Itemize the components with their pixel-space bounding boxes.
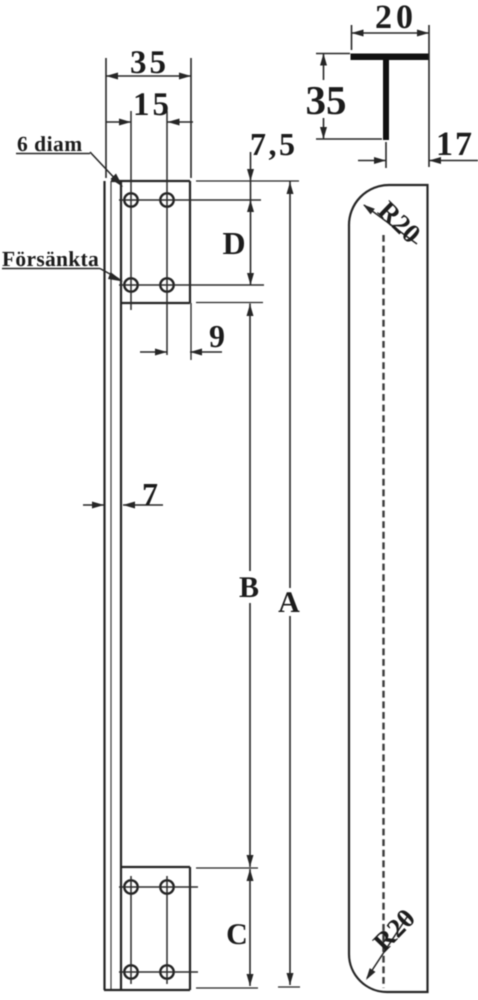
label 6 diam underline [16,153,90,155]
svg-text:17: 17 [436,126,474,163]
dimension D [247,200,254,285]
svg-text:A: A [278,586,300,619]
dimension 35 right [316,54,382,140]
hole H7 [124,965,137,978]
dimension 15 [106,119,193,126]
R20 top arrowhead [363,205,375,215]
svg-text:6 diam: 6 diam [17,132,83,156]
svg-text:B: B [239,571,259,604]
centerline col1 bottom [130,876,132,984]
centerline row2 [119,284,264,286]
centerline col2 bottom [166,876,168,984]
hole H2 [160,193,173,206]
svg-text:35: 35 [306,77,347,123]
bottom extension line C [196,987,258,989]
svg-text:15: 15 [133,87,172,123]
svg-text:7: 7 [142,476,158,512]
front view: step edge extension line [196,302,263,304]
svg-text:35: 35 [130,45,169,81]
hole H5 [124,880,137,893]
leader 6 diam [90,152,120,184]
dimension 20 [352,25,430,167]
top edge extension line [196,180,299,182]
hole H4 [160,278,173,291]
label Forsankta underline [2,268,100,270]
dimension 35 top [106,58,191,178]
dimension 7 [83,502,163,509]
front view: flange strip right edge / plate left edge [120,181,122,990]
R20 bottom arrowhead [366,968,376,980]
front view: top block right edge extension down [190,303,192,360]
svg-text:C: C [226,918,248,951]
R20 bottom leader [367,914,409,978]
svg-text:D: D [222,225,245,261]
front view: top edge of plate [111,180,190,182]
dimension 17 [358,142,478,168]
leader Forsankta arrowhead [108,272,123,282]
front view: flange strip middle line [110,181,112,990]
front view: flange strip left edge [103,181,105,990]
dimension C [247,869,254,986]
holes top block [124,193,173,978]
side view outline [349,185,428,992]
T-view flange bar [351,54,429,61]
centerline row1 [119,199,261,201]
front view: bottom edge [104,989,190,991]
centerline col2 top [166,111,168,355]
centerline row4 [119,971,198,973]
dimension B [247,304,254,868]
hole H3 [124,278,137,291]
svg-text:7,5: 7,5 [250,126,298,162]
svg-text:9: 9 [209,318,225,354]
bottom extension line A [278,986,300,988]
dimension 7,5 [247,152,254,200]
hole H6 [160,880,173,893]
front view: bottom block step edge [121,866,190,868]
T-view web bar [383,60,389,140]
front view: top block right edge [189,181,191,303]
side view dashed centerline [382,235,384,988]
front view: bottom step extension line [196,867,258,869]
R20 top leader [364,205,417,244]
centerline col1 top [130,111,132,310]
svg-text:20: 20 [375,0,417,36]
centerline row3 [119,886,198,888]
front view: bottom block right edge [189,867,191,990]
dimension A [287,182,294,986]
dimension 9 [140,349,222,356]
leader Forsankta [100,269,119,280]
leader 6 diam arrowhead [111,174,124,188]
front view: top block step edge [121,302,190,304]
svg-text:Försänkta: Försänkta [2,247,99,271]
hole H1 [124,193,137,206]
hole H8 [160,965,173,978]
